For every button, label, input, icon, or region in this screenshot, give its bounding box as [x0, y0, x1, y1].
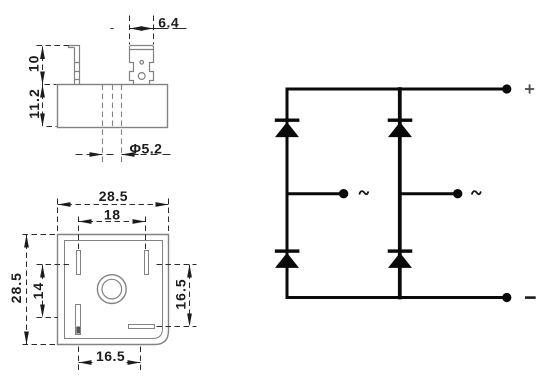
dimension Phi 5.2 (hole diameter): [76, 154, 171, 156]
svg-text:10: 10: [25, 55, 41, 73]
body outline (side view): [58, 85, 168, 128]
terminal slot bottom-right (horizontal): [129, 325, 155, 329]
svg-text:Φ5.2: Φ5.2: [130, 141, 163, 157]
dimension 10 (pin height): [37, 46, 69, 127]
mounting hole rings: [97, 275, 126, 304]
diode D2 (right upper) cathode bar: [388, 119, 413, 122]
diode D4 triangle: [388, 253, 412, 268]
svg-text:28.5: 28.5: [8, 272, 24, 303]
label ~ (right AC): [472, 191, 481, 194]
wire: left branch: [286, 89, 289, 298]
hole center dashed lines (hole seen through body): [103, 85, 122, 164]
diode D3 triangle: [275, 253, 299, 268]
svg-text:14: 14: [30, 282, 46, 300]
terminal slot top-right: [145, 251, 149, 275]
dimension 14 (left, slot row spacing): [37, 265, 71, 318]
outer case outline (top view, rounded bottom-right corner): [58, 235, 169, 345]
diode D2 triangle: [388, 122, 412, 137]
svg-text:18: 18: [104, 207, 121, 223]
diode D4 (right lower) cathode bar: [388, 249, 413, 252]
wire: top rail to +: [287, 88, 507, 91]
svg-text:11.2: 11.2: [26, 88, 42, 118]
svg-text:6.4: 6.4: [158, 15, 179, 31]
wire: right AC tap: [400, 192, 454, 195]
faston tab terminal (side view): [130, 46, 154, 85]
wire: left AC tap: [287, 192, 340, 195]
label + (positive terminal): [525, 84, 534, 93]
dimension 16.5 (right side): [157, 265, 197, 327]
dimension 28.5 (left, overall height): [23, 235, 57, 345]
svg-text:16.5: 16.5: [173, 278, 189, 309]
svg-text:16.5: 16.5: [96, 348, 125, 364]
node dot: left AC terminal: [339, 189, 348, 198]
diode D1 (left upper) cathode bar: [275, 119, 300, 122]
label ~ (left AC): [359, 191, 368, 194]
dimension 16.5 (bottom): [79, 347, 141, 371]
pin terminal (bent lead, side view): [69, 46, 80, 85]
wire: bottom rail to -: [287, 296, 507, 299]
dimension 28.5 (top, overall width): [58, 199, 169, 234]
svg-text:28.5: 28.5: [99, 188, 128, 204]
node dot: - output terminal: [502, 293, 511, 302]
dimension 18 (top, slot spacing): [79, 217, 146, 250]
node dot: right AC terminal: [453, 189, 462, 198]
terminal slot top-left: [77, 251, 81, 275]
label - (negative terminal): [525, 296, 536, 299]
wire: right branch: [398, 89, 402, 298]
terminal slot bottom-left: [76, 305, 81, 335]
inner case rim: [65, 241, 163, 339]
diode D3 (left lower) cathode bar: [275, 249, 300, 252]
node dot: + output terminal: [502, 84, 511, 93]
diode D1 triangle: [275, 122, 299, 137]
dimension 6.4 (tab width): [111, 16, 187, 45]
dark fill at bottom of bottom-left slot: [76, 327, 80, 334]
